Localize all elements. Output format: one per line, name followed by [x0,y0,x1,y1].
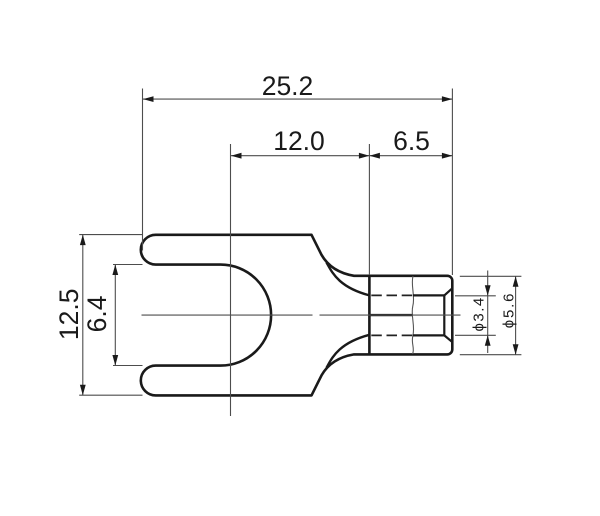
dimension 6.4 line [114,265,116,366]
wing seam curve bottom [327,335,370,368]
terminal body outline (fork + transition + crimp barrel) [141,235,452,396]
svg-text:12.0: 12.0 [273,126,325,156]
break (wavy) line [412,276,413,354]
dimension phi3.4 line [487,271,489,354]
vertical centreline (slot centre) [230,144,232,416]
extension line 6.4 bottom [113,365,143,367]
svg-text:12.5: 12.5 [54,289,84,341]
extension line 12.5 bottom [79,394,142,396]
entry chamfer top [444,289,452,296]
entry chamfer bottom [444,335,452,341]
extension line 6.4 top [113,264,143,266]
dimension 12.0 line [231,155,369,157]
sectioned hole top line [413,294,444,296]
hidden hole line bottom (dashed) [371,334,413,336]
svg-text:6.5: 6.5 [393,126,430,156]
extension line right (overall) [451,89,453,276]
svg-text:ϕ3.4: ϕ3.4 [470,296,487,331]
extension line barrel start [368,144,370,275]
dimension 12.5 line [82,235,84,396]
svg-text:ϕ5.6: ϕ5.6 [501,292,518,328]
extension line 12.5 top [79,234,142,236]
sectioned hole bottom line [413,334,444,336]
extension line phi3.4 top [455,295,496,297]
hidden hole line top (dashed) [371,294,413,296]
extension line phi5.6 bottom [460,354,522,356]
dimension 25.2 line [143,98,452,100]
wing seam curve top [327,263,370,296]
extension line left (overall) [142,89,144,251]
extension line phi3.4 bottom [455,334,496,336]
svg-text:25.2: 25.2 [262,71,314,101]
svg-text:6.4: 6.4 [82,295,112,332]
hole end vertical [443,295,445,335]
barrel left edge [368,276,371,355]
extension line phi5.6 top [460,275,522,277]
dimension 6.5 line [369,155,452,157]
dimension phi5.6 line [515,276,517,354]
wing seam centre line in barrel [369,314,413,316]
horizontal centreline [142,314,313,316]
